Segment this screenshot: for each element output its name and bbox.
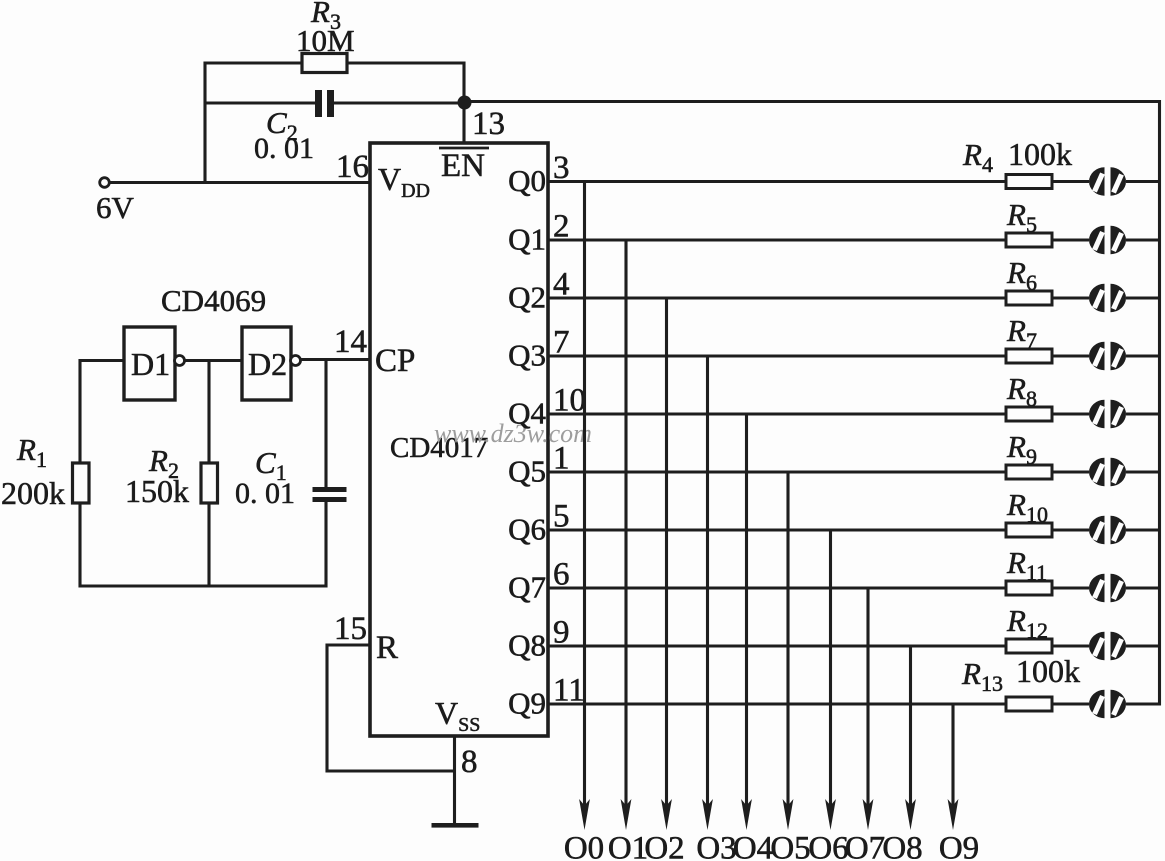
- arrowhead output O4: [741, 799, 752, 830]
- resistor R5: [1006, 233, 1052, 247]
- wire: D2 output to CP pin14: [300, 358, 371, 361]
- wire: R12 to LED8: [1052, 644, 1089, 647]
- LED D3 indicator: [1089, 342, 1126, 370]
- svg-text:100k: 100k: [1016, 653, 1080, 689]
- resistor R1: [73, 463, 90, 503]
- svg-text:Q2: Q2: [508, 280, 546, 315]
- resistor R6: [1006, 291, 1052, 305]
- svg-text:O8: O8: [882, 831, 922, 861]
- inverter D1 box: [124, 327, 175, 400]
- inverter D2 output bubble: [291, 356, 301, 366]
- wire: Q0 row to resistor R4: [548, 180, 1006, 183]
- svg-text:O1: O1: [608, 831, 648, 861]
- wire: from R pin to VSS line: [326, 769, 457, 772]
- wire: Q8 drop to output arrow: [909, 646, 912, 816]
- resistor R10: [1006, 523, 1052, 537]
- wire: D1 output to D2 input: [184, 359, 242, 362]
- wire: R10 to LED6: [1052, 528, 1089, 531]
- wire: R5 to LED1: [1052, 238, 1089, 241]
- wire: right vertical rail: [1158, 100, 1161, 706]
- wire: Q4 row to resistor R8: [548, 412, 1006, 415]
- wire: Q6 drop to output arrow: [829, 530, 832, 816]
- wire: LED1 to right rail: [1126, 238, 1161, 241]
- resistor R11: [1006, 581, 1052, 595]
- svg-text:0. 01: 0. 01: [235, 477, 295, 510]
- wire: LED9 to right rail: [1126, 702, 1161, 705]
- svg-text:16: 16: [336, 149, 369, 185]
- arrowhead output O9: [948, 799, 959, 830]
- wire: Q3 drop to output arrow: [706, 356, 709, 816]
- svg-text:14: 14: [334, 324, 367, 360]
- svg-text:CP: CP: [375, 343, 415, 379]
- resistor R2: [201, 463, 218, 503]
- wire: R11 to LED7: [1052, 586, 1089, 589]
- LED D7 indicator: [1089, 574, 1126, 602]
- wire: Q5 drop to output arrow: [786, 472, 789, 816]
- wire: Q1 row to resistor R5: [548, 238, 1006, 241]
- svg-text:R: R: [376, 630, 398, 666]
- wire: R3 right lead: [347, 61, 465, 64]
- wire: Q7 drop to output arrow: [866, 588, 869, 816]
- wire: vertical from R pin down: [325, 644, 328, 773]
- wire: LED7 to right rail: [1126, 586, 1161, 589]
- wire: R8 to LED4: [1052, 412, 1089, 415]
- ground symbol: [432, 823, 479, 828]
- resistor R4: [1006, 175, 1052, 189]
- wire: left vertical upper to R1: [78, 359, 81, 463]
- LED D6 indicator: [1089, 516, 1126, 544]
- svg-text:Q9: Q9: [508, 686, 546, 721]
- wire: LED8 to right rail: [1126, 644, 1161, 647]
- svg-text:Q0: Q0: [508, 163, 546, 198]
- arrowhead output O7: [863, 799, 874, 830]
- wire: R7 to LED3: [1052, 354, 1089, 357]
- wire: Q2 row to resistor R6: [548, 296, 1006, 299]
- wire: Q4 drop to output arrow: [745, 414, 748, 816]
- wire: vertical from CP wire to C1: [324, 360, 327, 489]
- arrowhead output O5: [783, 799, 794, 830]
- wire: LED5 to right rail: [1126, 470, 1161, 473]
- wire: R3 left lead: [204, 61, 303, 64]
- arrowhead output O1: [621, 799, 632, 830]
- svg-text:CD4069: CD4069: [161, 283, 266, 318]
- wire: R4 to LED0: [1052, 180, 1089, 183]
- svg-text:6V: 6V: [96, 190, 135, 225]
- svg-text:O3: O3: [696, 831, 736, 861]
- resistor R9: [1006, 465, 1052, 479]
- arrowhead output O2: [661, 799, 672, 830]
- svg-text:Q8: Q8: [508, 628, 546, 663]
- svg-text:O7: O7: [845, 831, 885, 861]
- LED D4 indicator: [1089, 400, 1126, 428]
- wire: Q6 row to resistor R10: [548, 528, 1006, 531]
- LED D5 indicator: [1089, 458, 1126, 486]
- wire: into D1 input: [80, 359, 124, 362]
- svg-text:O5: O5: [770, 831, 810, 861]
- wire: top rail to right side: [464, 100, 1161, 103]
- resistor R7: [1006, 349, 1052, 363]
- wire: 6V supply to VDD pin16: [109, 181, 371, 184]
- arrowhead output O3: [702, 799, 713, 830]
- IC U1 CD4017 body: [370, 143, 548, 736]
- wire: R13 to LED9: [1052, 702, 1089, 705]
- svg-text:O9: O9: [939, 831, 979, 861]
- wire: R pin15 stub: [327, 643, 371, 646]
- LED D0 indicator: [1089, 167, 1126, 195]
- wire: LED6 to right rail: [1126, 528, 1161, 531]
- wire: C2 left lead: [204, 101, 317, 104]
- svg-text:Q5: Q5: [508, 454, 546, 489]
- svg-text:O2: O2: [644, 831, 684, 861]
- wire: R9 to LED5: [1052, 470, 1089, 473]
- wire: down from R3 to EN pin13 through node: [462, 62, 465, 144]
- capacitor C2 plates: [315, 90, 322, 117]
- capacitor C1 plates: [313, 487, 347, 492]
- svg-text:Q6: Q6: [508, 512, 546, 547]
- wire: LED3 to right rail: [1126, 354, 1161, 357]
- resistor R12: [1006, 639, 1052, 653]
- wire: mid vertical lower from R2: [207, 503, 210, 588]
- LED D8 indicator: [1089, 632, 1126, 660]
- svg-text:D2: D2: [248, 346, 287, 382]
- svg-text:O4: O4: [733, 831, 773, 861]
- resistor R3: [302, 54, 347, 73]
- arrowhead output O6: [825, 799, 836, 830]
- terminal 6V open circle: [100, 178, 110, 188]
- wire: C2 right lead to node 13: [334, 101, 464, 104]
- resistor R8: [1006, 407, 1052, 421]
- svg-text:150k: 150k: [125, 473, 189, 509]
- junction dot node 13: [458, 96, 472, 110]
- wire: Q0 drop to output arrow: [583, 182, 586, 817]
- wire: left vertical of R3/C2 feedback: [203, 62, 206, 184]
- svg-text:Q3: Q3: [508, 338, 546, 373]
- wire: R6 to LED2: [1052, 296, 1089, 299]
- svg-text:100k: 100k: [1008, 136, 1072, 172]
- wire: Q9 row to resistor R13: [548, 702, 1006, 705]
- wire: VSS pin8 to ground: [453, 736, 456, 825]
- wire: Q9 drop to output arrow: [951, 704, 954, 816]
- wire: Q5 row to resistor R9: [548, 470, 1006, 473]
- wire: LED0 to right rail: [1126, 180, 1161, 183]
- svg-text:15: 15: [334, 611, 367, 647]
- LED D2 indicator: [1089, 284, 1126, 312]
- wire: left vertical lower from R1: [78, 503, 81, 588]
- svg-text:O0: O0: [564, 831, 604, 861]
- LED D1 indicator: [1089, 226, 1126, 254]
- svg-text:200k: 200k: [1, 475, 65, 511]
- inverter D2 box: [242, 327, 291, 400]
- wire: Q2 drop to output arrow: [665, 298, 668, 816]
- svg-text:EN: EN: [441, 148, 485, 184]
- wire: Q3 row to resistor R7: [548, 354, 1006, 357]
- wire: Q1 drop to output arrow: [624, 240, 627, 816]
- wire: oscillator bottom return: [79, 584, 328, 587]
- svg-text:8: 8: [461, 744, 478, 780]
- svg-text:0. 01: 0. 01: [254, 132, 314, 165]
- svg-text:10M: 10M: [296, 23, 355, 58]
- LED D9 indicator: [1089, 690, 1126, 718]
- wire: from C1 down to bottom wire: [324, 501, 327, 588]
- svg-text:D1: D1: [131, 346, 170, 382]
- svg-text:13: 13: [472, 106, 505, 142]
- inverter D1 output bubble: [175, 356, 185, 366]
- svg-text:O6: O6: [808, 831, 848, 861]
- svg-text:Q4: Q4: [508, 396, 546, 431]
- resistor R13: [1006, 697, 1052, 711]
- svg-text:Q1: Q1: [508, 222, 546, 257]
- wire: LED4 to right rail: [1126, 412, 1161, 415]
- wire: Q8 row to resistor R12: [548, 644, 1006, 647]
- arrowhead output O8: [905, 799, 916, 830]
- wire: LED2 to right rail: [1126, 296, 1161, 299]
- svg-text:Q7: Q7: [508, 570, 546, 605]
- wire: Q7 row to resistor R11: [548, 586, 1006, 589]
- arrowhead output O0: [579, 799, 590, 830]
- wire: mid vertical upper to R2: [207, 361, 210, 464]
